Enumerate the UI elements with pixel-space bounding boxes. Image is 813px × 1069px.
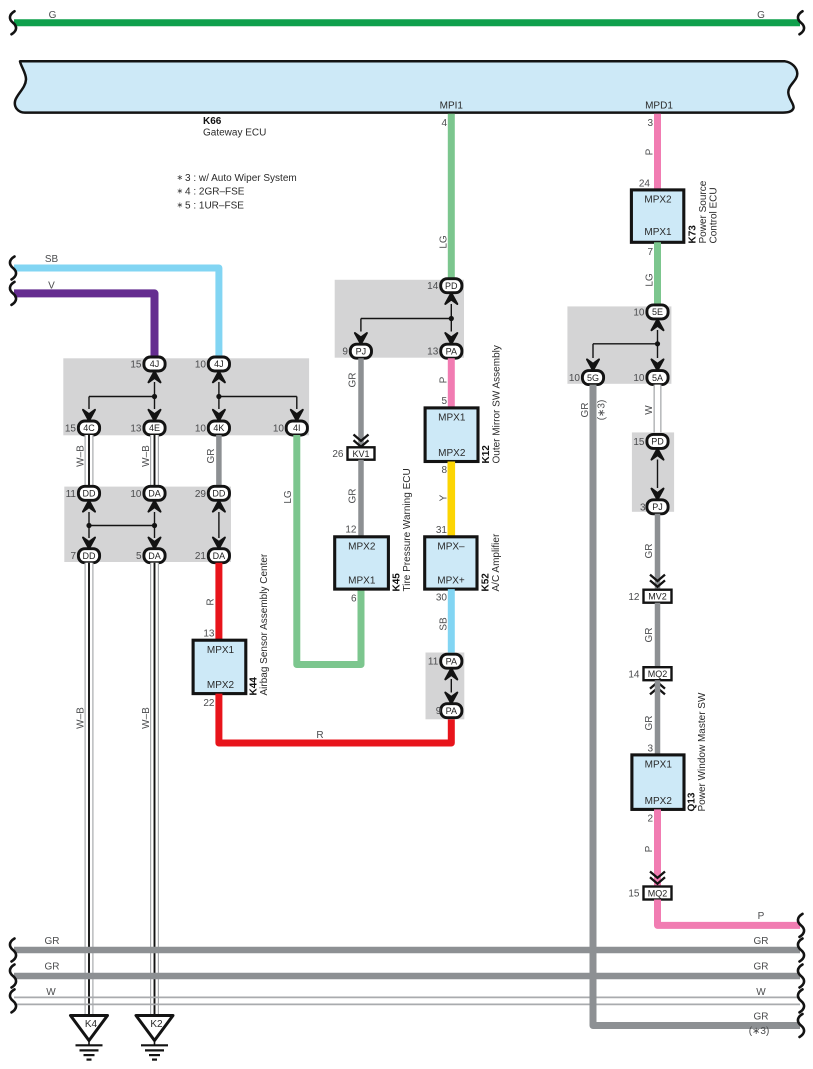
break symbol, GR bus 2 right end <box>798 965 804 988</box>
break symbol, wire SB left end <box>10 257 16 280</box>
connector PD pin 14 <box>427 279 462 293</box>
connector 4I pin 10 <box>273 421 308 435</box>
connector 5E pin 10 <box>633 305 668 319</box>
svg-text:MPD1: MPD1 <box>645 101 673 112</box>
svg-text:7: 7 <box>70 551 76 562</box>
svg-text:MQ2: MQ2 <box>648 669 668 679</box>
svg-text:∗: ∗ <box>177 187 184 196</box>
svg-text:GR: GR <box>754 1012 769 1023</box>
svg-text:P: P <box>644 845 655 852</box>
break symbol, wire V left end <box>10 282 16 305</box>
svg-text:MPX2: MPX2 <box>207 680 235 691</box>
wire P from MPD1 pin 3 to K73 pin 24 <box>639 114 658 190</box>
junction block PD/PJ/PA (middle) <box>335 280 464 358</box>
connector PA pin 13 <box>427 344 462 358</box>
svg-text:K73: K73 <box>688 225 699 244</box>
svg-text:30: 30 <box>436 593 448 604</box>
svg-text:GR: GR <box>206 449 217 464</box>
svg-text:MPX1: MPX1 <box>644 227 672 238</box>
svg-text:12: 12 <box>628 592 640 603</box>
break symbol, GR bus 1 left end <box>10 939 16 962</box>
wire P from PA/13 to K12 pin 5 <box>439 358 452 408</box>
break symbol, GR bus 2 left end <box>10 965 16 988</box>
svg-text:R: R <box>316 730 323 741</box>
svg-text:GR: GR <box>644 544 655 559</box>
svg-text:4I: 4I <box>293 423 301 433</box>
svg-text:4 : 2GR–FSE: 4 : 2GR–FSE <box>185 187 245 198</box>
svg-text:MPI1: MPI1 <box>440 101 464 112</box>
svg-text:PJ: PJ <box>652 502 663 512</box>
svg-text:PA: PA <box>446 706 457 716</box>
svg-text:GR: GR <box>754 962 769 973</box>
svg-text:4: 4 <box>441 118 447 129</box>
note: *3 w/ Auto Wiper System <box>177 173 297 211</box>
connector KV1 pin 26 <box>332 447 374 460</box>
svg-text:Gateway ECU: Gateway ECU <box>203 128 266 139</box>
wire V (from left edge to connector 4J) <box>14 281 155 358</box>
svg-text:24: 24 <box>639 179 651 190</box>
svg-text:3: 3 <box>640 502 646 513</box>
svg-text:15: 15 <box>65 424 77 435</box>
svg-text:MPX1: MPX1 <box>645 760 673 771</box>
connector 4C pin 15 <box>65 421 100 435</box>
svg-text:P: P <box>758 911 765 922</box>
svg-text:8: 8 <box>441 465 447 476</box>
svg-text:3: 3 <box>647 744 653 755</box>
svg-text:10: 10 <box>569 373 581 384</box>
svg-text:10: 10 <box>195 424 207 435</box>
wire LG from MPI1 pin 4 to PD/14 <box>439 114 452 280</box>
svg-text:W–B: W–B <box>141 445 152 467</box>
node dot at 4J/10 branch <box>216 394 221 399</box>
svg-text:10: 10 <box>273 424 285 435</box>
svg-text:4C: 4C <box>83 423 95 433</box>
connector MQ2 pin 15 <box>628 887 671 900</box>
ECU K44 Airbag Sensor Assembly Center <box>193 553 270 695</box>
svg-text:GR: GR <box>580 403 591 418</box>
switch Q13 Power Window Master SW <box>632 692 708 811</box>
amplifier K52 A/C Amplifier <box>425 533 502 591</box>
connector PA pin 11 <box>428 654 462 668</box>
svg-text:SB: SB <box>45 254 59 265</box>
svg-text:G: G <box>49 10 57 21</box>
svg-text:12: 12 <box>345 525 357 536</box>
switch K12 Outer Mirror SW Assembly <box>425 345 502 463</box>
wire W-B from DD/7 to ground K4 <box>76 563 90 1016</box>
wire links inside right junction block <box>587 319 664 370</box>
wire R from DA/21 to K44 pin 13 <box>203 563 219 641</box>
wire P from Q13 pin 2 to MQ2/15 <box>644 809 658 886</box>
svg-text:DD: DD <box>83 551 96 561</box>
svg-text:Outer Mirror SW Assembly: Outer Mirror SW Assembly <box>492 345 503 463</box>
break symbol, GR (*3) right end <box>798 1014 804 1037</box>
junction block J/C (left, connectors 4J/4C/4E/4K/4I) <box>63 358 309 435</box>
svg-text:W: W <box>46 987 56 998</box>
connector DA pin 5 <box>136 549 165 563</box>
svg-text:GR: GR <box>644 628 655 643</box>
svg-text:Airbag Sensor Assembly Center: Airbag Sensor Assembly Center <box>259 553 270 695</box>
svg-text:DD: DD <box>83 489 96 499</box>
connector 4J pin 15 <box>130 357 165 371</box>
wire W-B from 4C to DD/11 <box>76 435 90 487</box>
svg-text:(∗3): (∗3) <box>597 400 608 421</box>
wire SB (from left edge to connector 4J) <box>14 254 219 358</box>
ECU K45 Tire Pressure Warning ECU <box>335 468 413 604</box>
svg-text:K45: K45 <box>392 573 403 592</box>
wire GR from 4K to DD/29 <box>206 435 219 487</box>
wire link inside PA block <box>445 668 457 703</box>
svg-text:P: P <box>439 376 450 383</box>
svg-text:K4: K4 <box>85 1019 98 1030</box>
junction block 5E/5G/5A (right) <box>567 306 671 383</box>
svg-text:10: 10 <box>195 360 207 371</box>
connector DD pin 11 <box>66 486 100 500</box>
svg-text:Power Source: Power Source <box>698 180 709 243</box>
break symbol, GR bus 1 right end <box>798 939 804 962</box>
ground K2 <box>136 1016 173 1060</box>
node dot DD branch <box>86 523 91 528</box>
svg-text:MPX2: MPX2 <box>645 796 673 807</box>
wire links inside middle junction block <box>355 293 457 344</box>
svg-text:GR: GR <box>644 716 655 731</box>
svg-text:Tire Pressure Warning ECU: Tire Pressure Warning ECU <box>402 468 413 591</box>
break symbol, W bus right end <box>798 989 804 1012</box>
svg-text:15: 15 <box>130 360 142 371</box>
ECU K66 Gateway ECU (blue bar with break edges) <box>15 61 797 138</box>
svg-text:GR: GR <box>754 936 769 947</box>
svg-text:DA: DA <box>148 489 161 499</box>
wire W-B from DA/5 to ground K2 <box>141 563 155 1016</box>
connector 4J pin 10 <box>195 357 230 371</box>
svg-text:K66: K66 <box>203 116 222 127</box>
svg-text:Control ECU: Control ECU <box>709 187 720 243</box>
svg-text:10: 10 <box>633 307 645 318</box>
svg-text:K12: K12 <box>481 445 492 464</box>
wire GR from MQ2/14 to Q13 pin 3 <box>644 680 658 755</box>
break symbol, wire P right end <box>798 914 804 937</box>
svg-text:13: 13 <box>203 629 215 640</box>
svg-text:LG: LG <box>283 490 294 504</box>
connector PA pin 9 <box>436 704 462 718</box>
connector PJ pin 3 <box>640 500 668 514</box>
svg-text:∗: ∗ <box>177 173 184 182</box>
svg-text:K44: K44 <box>249 677 260 696</box>
connector DA pin 10 <box>130 486 165 500</box>
svg-text:21: 21 <box>195 551 207 562</box>
svg-text:W–B: W–B <box>76 445 87 467</box>
svg-text:MPX1: MPX1 <box>438 412 466 423</box>
svg-text:P: P <box>645 148 656 155</box>
connector MV2 pin 12 <box>628 590 671 603</box>
svg-text:4K: 4K <box>213 423 224 433</box>
junction block D/D (left lower, connectors DD/DA) <box>64 487 231 562</box>
svg-text:3: 3 <box>647 118 653 129</box>
svg-text:DA: DA <box>213 551 226 561</box>
svg-text:GR: GR <box>45 962 60 973</box>
svg-text:9: 9 <box>436 706 442 717</box>
svg-text:(∗3): (∗3) <box>749 1026 770 1037</box>
connector 4E pin 13 <box>130 421 165 435</box>
svg-text:K52: K52 <box>481 573 492 592</box>
svg-text:22: 22 <box>203 698 215 709</box>
wire GR from 5G/10 to right edge (*3) <box>580 385 800 1037</box>
svg-text:PJ: PJ <box>356 346 367 356</box>
node dot at 4J/15 branch <box>152 394 157 399</box>
wire LG from K73 pin 7 to 5E/10 <box>645 242 658 306</box>
ground K4 <box>71 1016 108 1060</box>
ECU K73 Power Source Control ECU <box>631 180 719 243</box>
connector PD pin 15 <box>633 434 668 448</box>
wire GR bus 2 (bottom) <box>14 962 800 977</box>
svg-text:DD: DD <box>212 489 225 499</box>
svg-text:PD: PD <box>651 437 664 447</box>
svg-text:13: 13 <box>427 347 439 358</box>
wire GR bus 1 (bottom) <box>14 936 800 950</box>
svg-text:DA: DA <box>148 551 161 561</box>
wire R from K44 pin 22 to PA/9 <box>203 694 451 743</box>
node dot DA branch <box>152 523 157 528</box>
svg-text:5G: 5G <box>587 373 599 383</box>
splice marker above MQ2/15 <box>650 872 665 884</box>
svg-text:29: 29 <box>195 489 207 500</box>
svg-text:∗: ∗ <box>177 200 184 209</box>
svg-text:MQ2: MQ2 <box>648 889 668 899</box>
wire GR from PJ/3 to MV2 <box>644 514 658 590</box>
svg-text:26: 26 <box>332 449 344 460</box>
svg-text:W–B: W–B <box>141 707 152 729</box>
svg-text:Y: Y <box>439 494 450 501</box>
svg-text:GR: GR <box>45 936 60 947</box>
svg-text:11: 11 <box>428 657 439 668</box>
break symbol, wire G right end <box>798 11 804 34</box>
svg-text:GR: GR <box>348 489 359 504</box>
svg-text:4J: 4J <box>214 359 224 369</box>
connector DD pin 7 <box>70 549 99 563</box>
connector DA pin 21 <box>195 549 230 563</box>
wire W-B from 4E to DA/10 <box>141 435 155 487</box>
splice marker above MV2 <box>650 575 665 587</box>
svg-text:SB: SB <box>439 617 450 631</box>
svg-text:3 : w/ Auto Wiper System: 3 : w/ Auto Wiper System <box>185 173 297 184</box>
svg-text:4J: 4J <box>150 359 160 369</box>
svg-text:4E: 4E <box>149 423 160 433</box>
wire GR from KV1 to K45 pin 12 <box>345 460 361 537</box>
svg-text:W: W <box>756 987 766 998</box>
svg-text:Power Window Master SW: Power Window Master SW <box>697 692 708 811</box>
svg-text:MPX2: MPX2 <box>644 194 672 205</box>
junction block PD/PJ (right, small) <box>632 432 674 511</box>
wire W bus (bottom) <box>14 987 800 1004</box>
svg-text:11: 11 <box>66 489 77 500</box>
break symbol, wire G left end <box>10 11 16 34</box>
wire link inside right PD/PJ block <box>652 449 664 500</box>
connector 4K pin 10 <box>195 421 230 435</box>
svg-text:MPX2: MPX2 <box>438 448 466 459</box>
svg-text:MPX1: MPX1 <box>348 576 376 587</box>
svg-text:10: 10 <box>633 373 645 384</box>
svg-text:K2: K2 <box>150 1019 163 1030</box>
junction block PA (small, middle lower) <box>426 653 465 720</box>
svg-text:W–B: W–B <box>76 707 87 729</box>
svg-text:PA: PA <box>446 346 457 356</box>
splice marker below MQ2/14 <box>650 682 665 694</box>
svg-text:14: 14 <box>628 669 640 680</box>
wire GR from MV2 to MQ2/14 <box>644 603 658 668</box>
svg-text:5: 5 <box>441 396 447 407</box>
svg-text:10: 10 <box>130 489 142 500</box>
wire links inside lower-left junction block <box>83 501 225 549</box>
connector MQ2 pin 14 <box>628 667 671 680</box>
svg-text:PA: PA <box>446 656 457 666</box>
svg-text:MPX–: MPX– <box>437 541 465 552</box>
svg-text:MPX2: MPX2 <box>348 541 376 552</box>
connector 5G pin 10 <box>569 371 604 385</box>
svg-text:9: 9 <box>342 347 348 358</box>
svg-text:GR: GR <box>348 373 359 388</box>
svg-text:6: 6 <box>351 594 357 605</box>
svg-text:5 : 1UR–FSE: 5 : 1UR–FSE <box>185 200 244 211</box>
node dot PD branch <box>449 316 454 321</box>
svg-text:15: 15 <box>633 437 645 448</box>
svg-text:MPX1: MPX1 <box>207 645 235 656</box>
svg-text:2: 2 <box>647 814 653 825</box>
svg-text:R: R <box>206 598 217 605</box>
svg-text:LG: LG <box>439 235 450 249</box>
svg-text:V: V <box>48 281 55 292</box>
svg-text:5: 5 <box>136 551 142 562</box>
svg-text:MV2: MV2 <box>648 592 667 602</box>
wire Y from K12 pin 8 to K52 pin 31 <box>436 462 451 537</box>
svg-text:13: 13 <box>130 424 142 435</box>
splice marker above KV1 <box>354 435 369 447</box>
wire LG from 4I to K45 pin 6 <box>283 435 361 665</box>
svg-text:KV1: KV1 <box>352 449 369 459</box>
wire G (green bus, top) <box>14 10 800 23</box>
break symbol, W bus left end <box>10 989 16 1012</box>
svg-text:LG: LG <box>645 273 656 287</box>
svg-text:14: 14 <box>427 281 439 292</box>
node dot 5E branch <box>655 341 660 346</box>
svg-text:5E: 5E <box>652 307 663 317</box>
svg-text:7: 7 <box>647 247 653 258</box>
svg-text:5A: 5A <box>652 373 663 383</box>
connector PJ pin 9 <box>342 344 371 358</box>
svg-text:15: 15 <box>628 889 640 900</box>
svg-text:PD: PD <box>445 281 458 291</box>
wire links inside left junction block <box>83 371 303 421</box>
wire SB from K52 pin 30 to PA/11 <box>436 589 451 654</box>
wire P from MQ2/15 to right edge <box>658 900 801 926</box>
svg-text:W: W <box>644 405 655 415</box>
svg-text:G: G <box>757 10 765 21</box>
connector DD pin 29 <box>195 486 230 500</box>
connector 5A pin 10 <box>633 371 668 385</box>
svg-text:31: 31 <box>436 525 448 536</box>
svg-text:Q13: Q13 <box>687 792 698 811</box>
svg-text:A/C Amplifier: A/C Amplifier <box>491 533 502 591</box>
wire GR from PJ/9 to splice KV1 <box>348 358 362 447</box>
svg-text:MPX+: MPX+ <box>437 576 465 587</box>
wire W from 5A to PD/15 <box>644 385 658 435</box>
